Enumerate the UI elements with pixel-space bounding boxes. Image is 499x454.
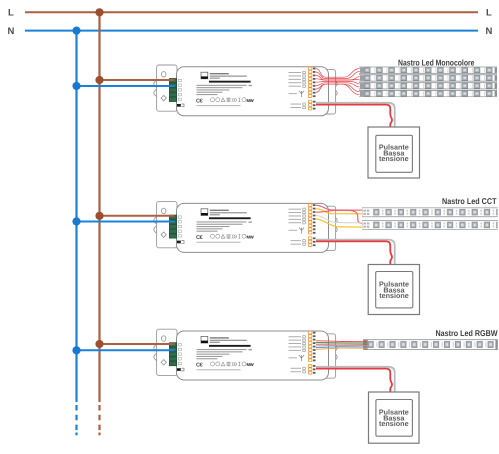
wire branch N to device 2 — [77, 221, 175, 223]
button SW2 — [368, 265, 419, 315]
wire U2 spare (grey) — [316, 216, 363, 223]
wire N line — [25, 30, 478, 32]
wire vertical phase end dot — [98, 433, 100, 436]
svg-text:Nastro Led Monocolore: Nastro Led Monocolore — [398, 57, 475, 67]
wire vertical phase dashed end — [98, 405, 100, 431]
wire vertical phase (brown) — [98, 12, 100, 402]
wire U2 to CCT row1 (red) — [316, 205, 363, 210]
wire branch N to device 3 — [77, 349, 175, 351]
wire pair U3 to button SW3 (red) — [316, 369, 392, 392]
junction L top — [95, 8, 103, 16]
wire branch L to device 3 — [100, 343, 175, 345]
svg-text:L: L — [8, 8, 14, 19]
junction L device3 — [95, 340, 103, 348]
junction N device1 — [72, 82, 80, 90]
wire pair U2 to button SW2 (grey) — [316, 240, 395, 265]
wire branch L to device 2 — [100, 215, 175, 217]
strip RGBW row — [363, 339, 498, 350]
junction N device2 — [72, 217, 80, 225]
LED dimmer U3 (RGBW) — [154, 329, 337, 380]
wire pair U3 to button SW3 (grey) — [316, 367, 395, 392]
svg-text:tensione: tensione — [379, 291, 409, 300]
junction L device1 — [95, 76, 103, 84]
button SW3 — [369, 392, 420, 443]
svg-text:tensione: tensione — [379, 154, 409, 163]
button SW1 — [368, 127, 420, 178]
wire pair U1 to button SW1 (red) — [316, 105, 392, 127]
junction N top — [72, 27, 80, 35]
svg-text:N: N — [8, 26, 15, 37]
wire U2 to CCT row2 (red S-curve) — [316, 210, 363, 223]
strip monocolore rows — [359, 67, 497, 98]
wire pair U2 to button SW2 (red) — [316, 241, 392, 264]
wire branch L to device 1 — [100, 79, 175, 81]
junction L device2 — [95, 212, 103, 220]
junction N device3 — [72, 346, 80, 354]
wire pair U1 to button SW1 (grey) — [316, 103, 395, 127]
LED dimmer U2 (CCT) — [154, 202, 337, 253]
wire vertical neutral dashed end — [75, 405, 77, 431]
svg-text:N: N — [486, 26, 493, 37]
strip CCT rows — [362, 207, 498, 229]
wire vertical neutral (blue) — [75, 31, 77, 402]
LED dimmer U1 (monocolore) — [154, 65, 337, 116]
svg-text:Nastro Led CCT: Nastro Led CCT — [442, 196, 497, 206]
wire U2 to CCT row1 (yellow) — [316, 209, 363, 214]
svg-text:L: L — [486, 8, 492, 19]
wire U2 to CCT row2 (yellow) — [316, 219, 363, 227]
svg-text:Nastro Led RGBW: Nastro Led RGBW — [436, 328, 498, 338]
wire vertical neutral end dot — [75, 433, 77, 436]
wire L line — [25, 11, 478, 13]
wire branch N to device 1 — [77, 85, 175, 87]
wire ribbon U3 to RGBW strip — [316, 341, 368, 350]
wire bundle U1 to strip rows — [316, 69, 360, 95]
svg-text:tensione: tensione — [379, 419, 409, 428]
